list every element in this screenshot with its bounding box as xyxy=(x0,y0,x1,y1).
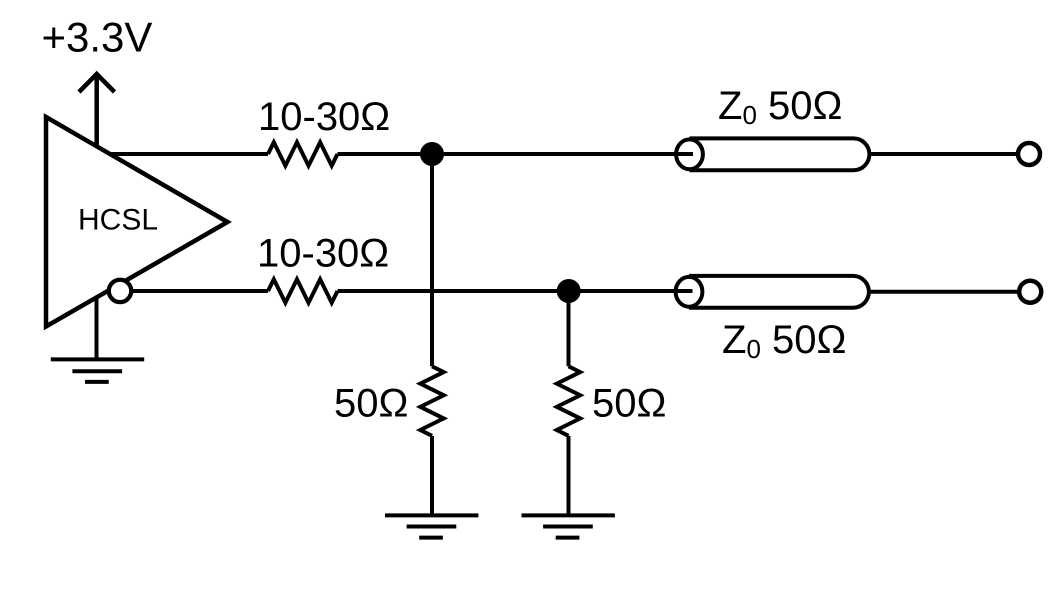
wire (top output to R1) xyxy=(110,152,268,156)
wire (node B down to R4) xyxy=(567,291,571,366)
svg-text:Z0 50Ω: Z0 50Ω xyxy=(722,318,846,364)
terminal (bottom output, open circle) xyxy=(1019,281,1041,303)
wire (R1 to transmission line T1) xyxy=(338,152,694,156)
transmission line T2 body (bottom) xyxy=(689,276,869,308)
power arrow VDD xyxy=(79,74,115,147)
ground (R4) xyxy=(522,515,615,537)
transmission line T1 body (top) xyxy=(690,138,870,170)
svg-text:+3.3V: +3.3V xyxy=(42,14,153,61)
svg-text:50Ω: 50Ω xyxy=(592,382,666,426)
wire (R2 to transmission line T2) xyxy=(338,289,693,293)
ground (HCSL) xyxy=(51,359,144,382)
wire (R4 to ground) xyxy=(567,436,571,516)
svg-text:HCSL: HCSL xyxy=(78,204,158,237)
node A (junction dot top) xyxy=(420,142,444,166)
resistor R3 50 ohm (left shunt, vertical) xyxy=(420,366,443,435)
wire (bubble to R2) xyxy=(130,289,268,293)
wire (node A down to R3, crosses bottom wire) xyxy=(430,154,434,366)
svg-text:50Ω: 50Ω xyxy=(334,382,408,426)
node B (junction dot bottom) xyxy=(557,279,581,303)
transmission line T2 left end ellipse xyxy=(676,277,703,307)
wire (R3 to ground) xyxy=(430,436,434,516)
ground wire (under HCSL) xyxy=(95,297,99,359)
svg-text:10-30Ω: 10-30Ω xyxy=(258,95,390,139)
terminal (top output, open circle) xyxy=(1018,143,1040,165)
svg-text:10-30Ω: 10-30Ω xyxy=(257,232,389,276)
op-amp U1 HCSL driver triangle xyxy=(46,117,228,327)
wire (T1 to output terminal) xyxy=(869,152,1016,156)
resistor R2 10-30 ohm (bottom series) xyxy=(268,279,337,302)
resistor R4 50 ohm (right shunt, vertical) xyxy=(557,366,580,435)
ground (R3) xyxy=(385,515,478,537)
svg-text:Z0 50Ω: Z0 50Ω xyxy=(718,84,842,130)
resistor R1 10-30 ohm (top series) xyxy=(268,142,337,165)
inverting output bubble xyxy=(109,280,131,302)
wire (T2 to output terminal) xyxy=(869,290,1018,294)
transmission line T1 left end ellipse xyxy=(676,139,703,169)
